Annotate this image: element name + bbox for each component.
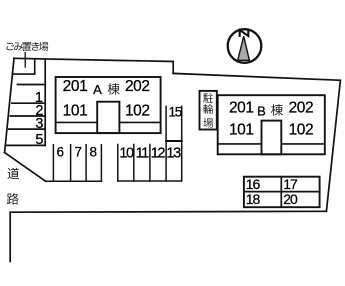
svg-text:17: 17: [283, 176, 298, 192]
svg-text:5: 5: [35, 132, 43, 148]
building A stairwell block: [97, 102, 119, 133]
label chuurinjou (bicycle parking) vertical: [203, 93, 213, 127]
stall divider 12/13 left wall of 13: [165, 106, 167, 181]
svg-text:6: 6: [57, 144, 65, 159]
building B inner floor line right: [281, 143, 325, 145]
compass circle: [228, 29, 262, 63]
svg-text:3: 3: [35, 116, 43, 132]
label gomi-okiba (garbage place): [6, 42, 48, 51]
building A inner floor line right: [119, 121, 160, 123]
site boundary right slant: [326, 80, 340, 211]
svg-text:201: 201: [229, 99, 254, 116]
divider between 15 and 13: [166, 140, 182, 142]
garbage box bottom: [12, 73, 35, 75]
stall line below 3: [9, 128, 45, 130]
garbage label leader line: [24, 53, 26, 67]
svg-text:102: 102: [125, 103, 150, 120]
svg-text:202: 202: [125, 78, 150, 95]
stall line below 5: [7, 144, 46, 146]
building A outline: [56, 77, 161, 133]
stall divider right of 8: [100, 145, 102, 182]
parking column right wall: [44, 59, 46, 145]
garbage box (gomi) right edge: [34, 59, 36, 74]
svg-text:18: 18: [246, 191, 261, 207]
svg-text:101: 101: [229, 121, 254, 138]
svg-text:15: 15: [168, 105, 181, 120]
site boundary top-right segment: [173, 73, 340, 80]
svg-text:102: 102: [289, 121, 314, 138]
stall divider 6/7: [70, 145, 72, 182]
svg-text:8: 8: [90, 144, 98, 159]
label B-tou (building B): [257, 104, 283, 119]
building B stairwell block: [262, 121, 282, 155]
stall divider left of 6: [52, 145, 54, 182]
site boundary bottom (road far edge): [10, 210, 326, 213]
label road ro: [7, 193, 19, 204]
building B outline: [218, 95, 325, 154]
building A inner floor line left: [56, 121, 98, 123]
compass letter N: [240, 30, 249, 36]
svg-text:11: 11: [136, 145, 150, 161]
site boundary lower-left diagonal: [5, 153, 46, 182]
building B inner floor line left: [218, 143, 262, 145]
svg-text:20: 20: [283, 191, 298, 207]
stalls 16-20 box outline: [244, 177, 320, 208]
site boundary top-left segment: [14, 58, 173, 61]
stalls 6-8 bottom line: [46, 180, 102, 182]
stall line above 1: [18, 84, 44, 86]
svg-text:13: 13: [166, 145, 181, 161]
stall 13/15 right wall: [181, 106, 183, 181]
compass needle triangle: [238, 36, 250, 60]
svg-text:202: 202: [289, 99, 314, 116]
svg-text:101: 101: [63, 103, 88, 120]
label road dou: [8, 168, 19, 179]
bicycle parking box: [200, 91, 217, 130]
stalls 16-20 horizontal divider: [244, 191, 320, 193]
svg-text:16: 16: [246, 176, 261, 192]
svg-text:10: 10: [119, 145, 134, 161]
stalls 10-13 bottom line: [118, 180, 182, 182]
svg-text:A: A: [93, 82, 102, 97]
stall divider 7/8: [85, 145, 87, 182]
svg-text:201: 201: [63, 78, 88, 95]
svg-text:12: 12: [151, 145, 166, 161]
site boundary left slant: [5, 58, 14, 152]
stall line below 2: [10, 115, 45, 117]
svg-text:B: B: [257, 104, 266, 119]
site boundary step down: [172, 62, 174, 74]
stall divider left of 10: [117, 145, 119, 182]
stall line below 1: [12, 102, 45, 104]
svg-text:7: 7: [75, 144, 83, 159]
stalls 16-20 vertical divider: [280, 177, 282, 208]
label A-tou (building A): [93, 82, 119, 97]
road left edge vertical: [9, 212, 11, 261]
stall divider 11/12: [149, 145, 151, 182]
stall divider 10/11: [133, 145, 135, 182]
